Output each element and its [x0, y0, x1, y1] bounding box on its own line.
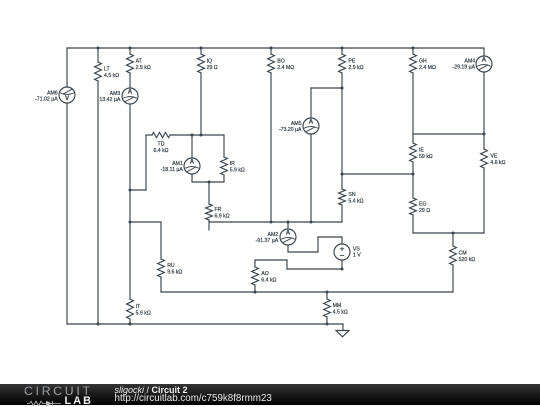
svg-text:BO: BO [277, 59, 285, 65]
svg-text:29 Ω: 29 Ω [207, 65, 218, 71]
svg-text:2.4 MΩ: 2.4 MΩ [419, 65, 436, 71]
svg-text:LT: LT [104, 67, 110, 73]
svg-text:IQ: IQ [207, 59, 212, 65]
svg-text:29 Ω: 29 Ω [419, 208, 430, 214]
svg-text:FR: FR [215, 207, 222, 213]
svg-text:SN: SN [348, 192, 355, 198]
svg-text:RU: RU [167, 263, 175, 269]
svg-text:6.4 kΩ: 6.4 kΩ [153, 148, 168, 154]
svg-text:2.9 kΩ: 2.9 kΩ [348, 65, 363, 71]
svg-text:A: A [128, 89, 133, 96]
svg-text:TD: TD [158, 142, 165, 148]
svg-text:A: A [190, 159, 195, 166]
svg-text:13.42 µA: 13.42 µA [99, 97, 120, 103]
svg-text:A: A [482, 57, 487, 64]
svg-text:4.5 kΩ: 4.5 kΩ [104, 73, 119, 79]
svg-text:-18.11 µA: -18.11 µA [161, 167, 184, 173]
svg-text:VE: VE [490, 154, 497, 160]
svg-text:5.4 kΩ: 5.4 kΩ [348, 198, 363, 204]
svg-text:AT: AT [136, 59, 143, 65]
svg-text:9.6 kΩ: 9.6 kΩ [167, 269, 182, 275]
svg-text:-73.20 µA: -73.20 µA [279, 127, 302, 133]
svg-text:IE: IE [419, 148, 424, 154]
svg-text:GH: GH [419, 59, 427, 65]
svg-text:5.9 kΩ: 5.9 kΩ [230, 167, 245, 173]
svg-text:-71.02 µA: -71.02 µA [35, 96, 58, 102]
svg-text:-29.19 µA: -29.19 µA [452, 65, 475, 71]
svg-text:IT: IT [136, 304, 141, 310]
svg-text:-91.37 µA: -91.37 µA [256, 238, 279, 244]
svg-text:2.9 kΩ: 2.9 kΩ [136, 65, 151, 71]
svg-text:1 V: 1 V [353, 253, 361, 259]
svg-text:AO: AO [261, 271, 269, 277]
svg-text:6.4 kΩ: 6.4 kΩ [261, 277, 276, 283]
svg-text:5.9 kΩ: 5.9 kΩ [136, 310, 151, 316]
svg-text:4.5 kΩ: 4.5 kΩ [333, 309, 348, 315]
svg-text:CM: CM [459, 251, 467, 257]
svg-text:A: A [286, 230, 291, 237]
svg-text:MM: MM [333, 303, 342, 309]
svg-text:EG: EG [419, 202, 427, 208]
svg-text:6.9 kΩ: 6.9 kΩ [215, 213, 230, 219]
svg-text:IR: IR [230, 161, 235, 167]
svg-text:4.6 kΩ: 4.6 kΩ [490, 160, 505, 166]
svg-text:59 kΩ: 59 kΩ [419, 154, 433, 160]
svg-text:520 kΩ: 520 kΩ [459, 257, 476, 263]
svg-text:A: A [309, 119, 314, 126]
svg-text:PE: PE [348, 59, 355, 65]
svg-text:2.4 MΩ: 2.4 MΩ [277, 65, 294, 71]
